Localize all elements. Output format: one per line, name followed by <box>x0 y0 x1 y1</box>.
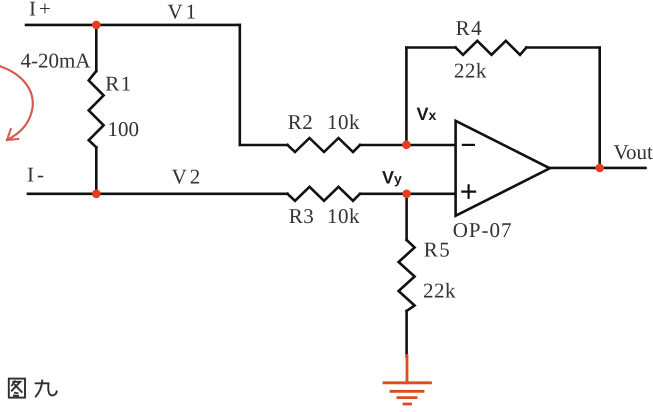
wire R1 bottom lead <box>95 147 98 194</box>
九 <box>35 380 42 398</box>
resistor R4 <box>456 41 527 55</box>
ground <box>384 356 431 405</box>
wire I- bottom rail <box>28 193 288 196</box>
node Vy junction <box>402 190 411 199</box>
wire feedback left vertical <box>405 48 408 146</box>
svg-text:R3: R3 <box>289 204 315 228</box>
svg-text:R5: R5 <box>424 238 452 262</box>
wire I+ top rail <box>26 24 240 27</box>
node Vout junction <box>595 164 604 173</box>
wire R5 top lead <box>405 194 408 240</box>
wire R5 bottom lead <box>405 311 408 357</box>
svg-text:V2: V2 <box>172 164 204 188</box>
op-amp U1 OP-07 <box>456 121 550 216</box>
label 图九 (Figure 9) <box>9 379 57 398</box>
svg-text:OP-07: OP-07 <box>453 218 513 242</box>
svg-text:R4: R4 <box>456 16 484 40</box>
svg-text:Vx: Vx <box>417 104 437 124</box>
svg-text:R1: R1 <box>105 72 133 96</box>
svg-text:10k: 10k <box>327 204 360 228</box>
wire R4 left lead <box>406 46 455 49</box>
current loop arrow 4-20mA <box>0 65 33 140</box>
svg-text:V1: V1 <box>168 0 200 24</box>
wire R1 top lead <box>95 25 98 71</box>
resistor R2 <box>288 138 361 152</box>
svg-text:22k: 22k <box>454 59 487 83</box>
svg-text:10k: 10k <box>327 110 360 134</box>
svg-text:100: 100 <box>108 117 140 141</box>
node I+ / R1 junction <box>92 21 101 30</box>
svg-text:4-20mA: 4-20mA <box>21 49 92 73</box>
node I- / R1 junction <box>92 190 101 199</box>
op-amp plus input symbol <box>462 185 475 197</box>
svg-text:I+: I+ <box>29 0 54 21</box>
wire feedback right vertical <box>598 48 601 168</box>
svg-text:Vout: Vout <box>614 140 653 164</box>
svg-text:R2: R2 <box>288 110 314 134</box>
resistor R3 <box>288 187 361 201</box>
node Vx junction <box>402 141 411 150</box>
wire R2 left lead <box>240 144 288 147</box>
wire R4 right lead <box>526 46 599 49</box>
wire V1 corner vertical <box>239 25 242 145</box>
wire output <box>550 167 646 170</box>
svg-text:22k: 22k <box>423 279 456 303</box>
wire R2 to inverting input <box>360 144 456 147</box>
svg-text:Vy: Vy <box>382 167 402 187</box>
resistor R1 <box>89 71 104 147</box>
resistor R5 <box>399 240 415 311</box>
图 <box>9 379 25 398</box>
wire R3 to non-inverting input <box>360 193 456 196</box>
svg-text:I-: I- <box>27 163 47 187</box>
op-amp minus input symbol <box>463 144 474 146</box>
